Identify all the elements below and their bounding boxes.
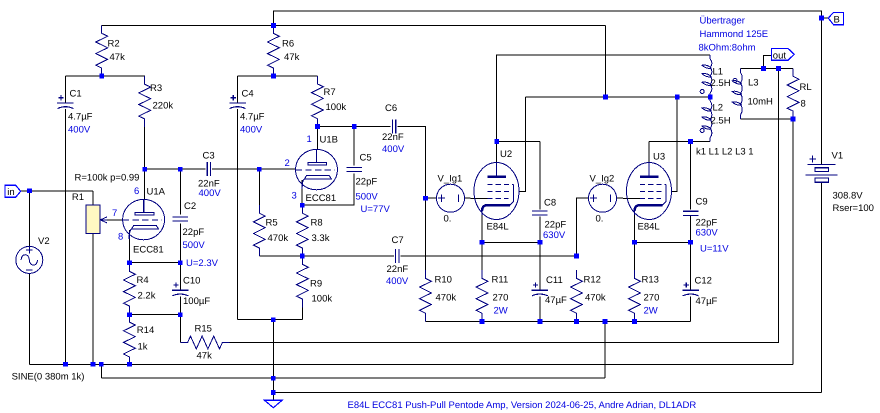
svg-text:2.2k: 2.2k	[138, 291, 156, 302]
svg-text:E84L: E84L	[638, 222, 660, 233]
wire C2 bottom stem	[179, 223, 181, 262]
svg-text:1k: 1k	[138, 342, 148, 353]
svg-text:400V: 400V	[199, 188, 222, 199]
wire V2 top lead	[28, 191, 30, 247]
resistor R8	[296, 205, 308, 256]
svg-text:2W: 2W	[644, 306, 658, 317]
junction U1A cathode	[127, 260, 132, 265]
wire stub to B flag	[822, 17, 829, 19]
wire cathode common node	[426, 321, 691, 323]
junction R13 bottom	[632, 319, 637, 324]
wire U3 cathode to node	[634, 214, 636, 243]
svg-text:ECC81: ECC81	[133, 245, 164, 256]
svg-text:U1B: U1B	[320, 135, 338, 146]
flag out	[771, 48, 794, 60]
svg-text:2.5H: 2.5H	[711, 116, 731, 127]
wire R3 to plate node	[144, 127, 146, 169]
resistor R4	[123, 263, 135, 315]
svg-text:2W: 2W	[494, 306, 508, 317]
svg-text:7: 7	[112, 208, 117, 219]
wire V2 bottom lead	[28, 273, 30, 364]
pentode U2 E84L	[474, 163, 519, 220]
wire U1B plate lead	[316, 127, 318, 151]
junction R8-R9	[300, 254, 305, 259]
wire C1 bottom to rail	[64, 109, 66, 364]
svg-text:308.8V: 308.8V	[833, 191, 864, 202]
svg-text:C4: C4	[242, 89, 254, 100]
resistor R13	[629, 270, 641, 321]
svg-text:U1A: U1A	[147, 187, 166, 198]
svg-text:4.7µF: 4.7µF	[240, 112, 265, 123]
inductor L1 primary	[710, 55, 712, 97]
svg-text:47µF: 47µF	[696, 296, 718, 307]
svg-text:2.5H: 2.5H	[711, 78, 731, 89]
resistor R2	[96, 25, 108, 76]
svg-text:SINE(0 380m 1k): SINE(0 380m 1k)	[12, 371, 85, 382]
svg-text:R12: R12	[584, 275, 601, 286]
source V_Ig1	[437, 184, 465, 212]
wire B+ to U3 g2	[671, 97, 677, 192]
svg-text:E84L: E84L	[487, 222, 509, 233]
wire plate node to C3	[145, 168, 206, 170]
junction C9 top	[688, 139, 693, 144]
resistor RL	[787, 69, 799, 120]
svg-text:C9: C9	[696, 197, 708, 208]
junction RL bottom	[791, 117, 796, 122]
wire return rail 3	[101, 377, 605, 379]
svg-text:8: 8	[801, 99, 806, 110]
svg-text:R9: R9	[310, 279, 322, 290]
svg-text:400V: 400V	[240, 125, 263, 136]
svg-text:Rser=100: Rser=100	[833, 203, 874, 214]
wire ground drop	[272, 320, 274, 401]
resistor R14	[123, 315, 135, 365]
wire U1A cathode node	[129, 262, 180, 264]
svg-text:C8: C8	[544, 198, 556, 209]
wire C10 bottom stem	[179, 296, 181, 314]
wire drop to R15	[179, 315, 181, 343]
wire feedback rail R15 to out	[230, 69, 779, 343]
junction C2-C10	[178, 260, 183, 265]
junction C11 bottom	[538, 319, 543, 324]
wire V_Ig1 to U2 grid	[465, 197, 488, 199]
svg-text:0.: 0.	[596, 214, 604, 225]
svg-text:1: 1	[307, 134, 312, 145]
resistor R6	[268, 25, 280, 76]
junction U2 plate	[494, 139, 499, 144]
capacitor C3	[207, 162, 210, 176]
svg-text:ECC81: ECC81	[306, 193, 337, 204]
capacitor C1	[57, 102, 74, 104]
junction R4 bottom	[127, 312, 132, 317]
svg-text:L2: L2	[713, 103, 724, 114]
junction R12 top	[574, 254, 579, 259]
svg-text:100µF: 100µF	[183, 296, 210, 307]
inductor L3 secondary	[741, 69, 743, 119]
svg-text:L1: L1	[713, 67, 724, 78]
wire C11 bottom stem	[539, 296, 541, 321]
svg-text:0.: 0.	[444, 214, 452, 225]
svg-text:U3: U3	[653, 152, 665, 163]
svg-text:Übertrager: Übertrager	[700, 16, 745, 27]
junction C9 bottom	[688, 240, 693, 245]
svg-text:C2: C2	[184, 201, 196, 212]
capacitor C6	[392, 120, 395, 134]
node in	[27, 188, 32, 193]
capacitor C8	[532, 211, 547, 215]
svg-text:R6: R6	[282, 39, 294, 50]
wire U3 plate lead	[648, 142, 650, 163]
svg-text:270: 270	[493, 293, 509, 304]
junction B+ center tap	[603, 95, 608, 100]
wire U2 cathode to node	[481, 214, 483, 243]
svg-text:47µF: 47µF	[545, 295, 567, 306]
wire C12 bottom stem	[690, 296, 692, 321]
capacitor C4	[229, 102, 246, 104]
junction C10 bottom	[178, 312, 183, 317]
svg-text:470k: 470k	[436, 293, 457, 304]
wire U1A cathode lead	[128, 230, 130, 263]
junction R2 bottom	[99, 74, 104, 79]
svg-text:630V: 630V	[543, 230, 566, 241]
svg-text:470k: 470k	[585, 293, 606, 304]
junction R12 bottom	[574, 319, 579, 324]
svg-text:47k: 47k	[110, 52, 126, 63]
wire V_Ig2 to U3 grid	[617, 197, 641, 199]
svg-text:B: B	[834, 14, 840, 25]
svg-text:400V: 400V	[68, 125, 91, 136]
svg-text:220k: 220k	[153, 101, 174, 112]
capacitor C2	[173, 217, 188, 221]
svg-text:630V: 630V	[696, 228, 719, 239]
svg-text:R13: R13	[642, 275, 659, 286]
wire C7 to R12 node	[401, 255, 577, 257]
wire R9 bottom lead	[301, 307, 303, 319]
junction R5 top	[257, 167, 262, 172]
svg-text:E84L ECC81 Push-Pull Pentode A: E84L ECC81 Push-Pull Pentode Amp, Versio…	[348, 400, 697, 411]
junction rail link	[99, 362, 104, 367]
wire C8 bottom stem	[539, 217, 541, 243]
svg-text:U2: U2	[500, 149, 512, 160]
wire U3 plate to L2	[649, 141, 710, 143]
wire U2 plate to L1	[497, 55, 711, 142]
svg-text:8: 8	[118, 232, 123, 243]
svg-text:C11: C11	[546, 275, 563, 286]
resistor R15	[180, 336, 229, 349]
wire R7 node to C6	[317, 126, 390, 128]
wire B+ riser to center tap	[605, 25, 607, 97]
svg-text:R2: R2	[108, 39, 120, 50]
wire C1 top stem	[64, 76, 66, 103]
junction R14-rail	[127, 362, 132, 367]
wire B+ to U2 g2	[520, 97, 526, 192]
wire C12 top stem	[690, 242, 692, 290]
wire R1 bottom lead	[92, 234, 94, 365]
junction U1A plate node	[142, 167, 147, 172]
junction U3 cathode node	[632, 240, 637, 245]
svg-text:C1: C1	[70, 89, 82, 100]
svg-text:R11: R11	[492, 275, 509, 286]
triode U1A ECC81	[123, 199, 165, 239]
svg-text:R5: R5	[266, 218, 278, 229]
svg-text:400V: 400V	[382, 144, 405, 155]
wire riser cathode common	[604, 322, 606, 379]
wire C4-R9 node	[238, 319, 303, 321]
triode U1B ECC81	[296, 149, 338, 189]
svg-text:100k: 100k	[312, 294, 333, 305]
svg-text:C10: C10	[183, 276, 200, 287]
junction C2 top	[178, 167, 183, 172]
svg-text:C3: C3	[203, 151, 215, 162]
svg-text:500V: 500V	[356, 192, 379, 203]
junction B flag	[819, 16, 824, 21]
svg-text:C7: C7	[392, 235, 404, 246]
flag B	[828, 12, 843, 24]
svg-text:V_Ig1: V_Ig1	[438, 174, 463, 185]
svg-text:22pF: 22pF	[545, 220, 567, 231]
wire secondary bottom	[741, 118, 794, 120]
junction R6 bottom	[271, 74, 276, 79]
wire V1 bottom lead	[821, 182, 823, 392]
wire grid node to R10	[425, 198, 427, 270]
wire rail2-rail3 link	[100, 364, 102, 378]
junction B+ rail	[271, 23, 276, 28]
svg-text:RL: RL	[800, 82, 812, 93]
svg-text:out: out	[773, 50, 787, 61]
wire U3 cathode node	[635, 241, 691, 243]
svg-text:8kOhm:8ohm: 8kOhm:8ohm	[699, 42, 756, 53]
resistor R12	[571, 270, 583, 321]
capacitor C10	[172, 289, 189, 291]
svg-text:C6: C6	[385, 103, 397, 114]
svg-text:U=77V: U=77V	[361, 204, 391, 215]
svg-text:22nF: 22nF	[387, 264, 409, 275]
resistor R3	[139, 76, 151, 127]
inductor L2 primary	[710, 97, 712, 142]
wire C5 bottom to U1B cathode	[302, 174, 354, 206]
junction R9 node drop	[271, 317, 276, 322]
wire R11 top lead	[481, 242, 483, 270]
svg-text:3: 3	[292, 191, 297, 202]
svg-text:V_Ig2: V_Ig2	[590, 174, 615, 185]
wire transformer center tap	[526, 96, 711, 98]
svg-text:500V: 500V	[183, 240, 206, 251]
wire in to R1	[21, 190, 93, 192]
phase dot L1	[700, 90, 704, 94]
wire C4 top stem	[237, 76, 239, 103]
svg-text:270: 270	[644, 293, 660, 304]
wire stub to out flag	[764, 55, 772, 68]
wire R1 top lead	[92, 191, 94, 205]
flag in	[5, 185, 21, 197]
junction U2 cathode node	[480, 240, 485, 245]
svg-text:10mH: 10mH	[748, 97, 773, 108]
wire C4-R6-R7 node	[238, 75, 318, 77]
svg-text:47k: 47k	[197, 351, 213, 362]
wire R1 wiper to U1A grid	[105, 219, 123, 221]
junction R1-rail	[91, 362, 96, 367]
wire U1B cathode lead	[301, 180, 303, 205]
junction L1-L2 center tap	[708, 95, 713, 100]
phase dot L2	[700, 129, 704, 133]
wire riser to RL bottom	[792, 119, 794, 364]
svg-text:V2: V2	[38, 236, 50, 247]
svg-text:400V: 400V	[386, 276, 409, 287]
svg-text:U=11V: U=11V	[700, 244, 729, 255]
junction ground rail	[271, 390, 276, 395]
junction U1B cathode	[300, 203, 305, 208]
svg-text:6: 6	[134, 186, 139, 197]
capacitor C11	[532, 289, 549, 291]
svg-text:R10: R10	[435, 275, 452, 286]
svg-text:3.3k: 3.3k	[312, 233, 330, 244]
resistor R9	[297, 256, 309, 307]
svg-text:V1: V1	[832, 151, 844, 162]
svg-text:in: in	[7, 187, 14, 198]
svg-text:2: 2	[285, 158, 290, 169]
wire C4 bottom drop	[237, 109, 239, 320]
junction U3 g2 tap	[675, 95, 680, 100]
svg-text:22nF: 22nF	[382, 132, 404, 143]
svg-text:470k: 470k	[268, 233, 289, 244]
wire C9 top stem	[690, 142, 692, 210]
svg-text:47k: 47k	[284, 52, 300, 63]
source V_Ig2	[589, 184, 617, 212]
svg-text:22pF: 22pF	[183, 227, 205, 238]
svg-text:R3: R3	[150, 83, 162, 94]
wire R5 top lead	[258, 169, 260, 205]
svg-text:22pF: 22pF	[356, 177, 378, 188]
junction C8 bottom	[538, 240, 543, 245]
svg-text:R15: R15	[195, 324, 212, 335]
wire C11 top stem	[539, 242, 541, 290]
junction out stub	[761, 66, 766, 71]
wire common rail to RL bottom riser	[29, 363, 793, 365]
wire C3 to U1B grid	[212, 168, 296, 170]
wire C10 top stem	[179, 263, 181, 290]
wire U1A plate lead	[144, 169, 146, 200]
junction C5 top	[352, 124, 357, 129]
wire C5 top stem	[353, 127, 355, 166]
wire riser to V_Ig2	[577, 198, 589, 256]
wire C1-R2-R3 node	[65, 75, 145, 77]
resistor R10	[420, 270, 432, 321]
wire C9 bottom stem	[690, 215, 692, 242]
svg-text:C12: C12	[695, 276, 712, 287]
junction drop rail3	[271, 376, 276, 381]
capacitor C12	[682, 289, 699, 291]
wire plate node to C8	[497, 141, 540, 143]
svg-text:4.7µF: 4.7µF	[68, 112, 93, 123]
wire U2 plate lead	[496, 142, 498, 164]
resistor R5	[253, 205, 265, 256]
svg-text:R8: R8	[311, 218, 323, 229]
wire B+ top loop to V1	[273, 11, 821, 164]
capacitor C7	[396, 249, 399, 263]
svg-text:U=2.3V: U=2.3V	[186, 258, 219, 269]
svg-text:R4: R4	[137, 275, 149, 286]
pentode U3 E84L	[627, 163, 672, 220]
junction C1-rail	[63, 362, 68, 367]
svg-text:C5: C5	[360, 153, 372, 164]
wire U2 cathode node	[482, 241, 540, 243]
junction R11 bottom	[480, 319, 485, 324]
svg-text:R1: R1	[72, 192, 84, 203]
wire secondary top	[741, 68, 794, 70]
resistor R11	[476, 270, 488, 321]
phase dot L3	[733, 79, 737, 83]
wire ground rail to V1 minus	[273, 392, 821, 394]
resistor R7	[312, 76, 324, 127]
wire R4 bottom node	[129, 314, 180, 316]
svg-text:L3: L3	[748, 78, 759, 89]
wire V_Ig1 left lead	[426, 197, 437, 199]
ground symbol	[264, 400, 282, 408]
wire C8 top stem	[539, 142, 541, 210]
svg-text:R7: R7	[324, 87, 336, 98]
wire R13 top lead	[634, 242, 636, 270]
wire B+ rail upper	[102, 24, 606, 26]
potentiometer R1	[86, 205, 100, 234]
wire C2 top stem	[179, 169, 181, 214]
voltage source V1 battery	[808, 164, 836, 166]
junction common drop	[603, 319, 608, 324]
voltage source V2 sine	[16, 246, 43, 273]
svg-text:k1 L1 L2 L3 1: k1 L1 L2 L3 1	[696, 147, 754, 158]
svg-text:Hammond 125E: Hammond 125E	[700, 29, 769, 40]
svg-text:R=100k p=0.99: R=100k p=0.99	[75, 173, 140, 184]
wire C6 to V_Ig1 node	[397, 127, 425, 199]
junction V_Ig1 node	[423, 196, 428, 201]
capacitor C9	[683, 211, 698, 215]
capacitor C5	[347, 167, 362, 171]
junction R7 bottom	[315, 124, 320, 129]
junction feedback tap	[776, 66, 781, 71]
svg-text:R14: R14	[137, 325, 154, 336]
svg-text:100k: 100k	[326, 102, 347, 113]
wire R5-R8 node to C7	[259, 255, 394, 257]
